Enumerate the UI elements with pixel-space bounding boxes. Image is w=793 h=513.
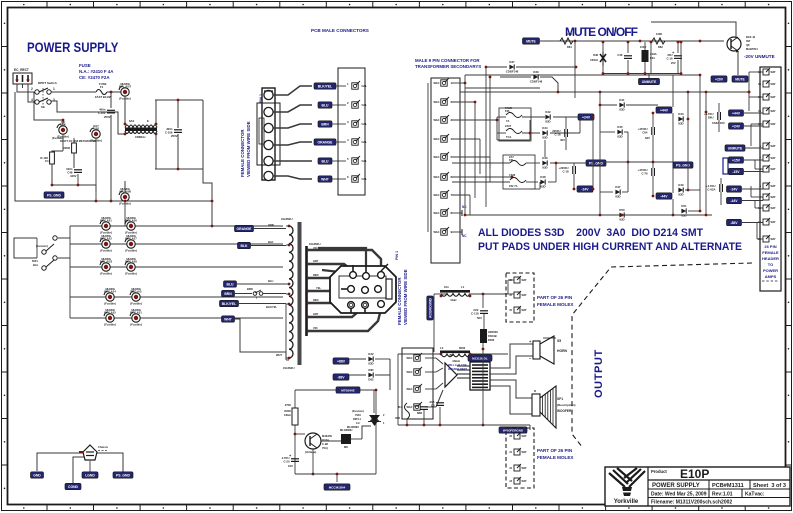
wire dashed bracket [572,263,752,448]
pin header 6 [760,142,777,149]
svg-text:BLK A31: BLK A31 [130,310,142,314]
breaker 7A row3 [509,155,526,166]
pin secondary 1 [433,78,452,86]
fusible link row4b [130,287,142,306]
svg-text:(Fusible): (Fusible) [125,271,137,275]
transformer T1 secondary [307,242,321,336]
pin male 5 [352,156,360,164]
diode D38 zener [590,52,606,66]
wire diode outs [553,116,593,118]
svg-text:OAL: OAL [362,177,368,181]
svg-text:(Fusible): (Fusible) [130,301,142,305]
svg-text:SB: SB [41,105,45,109]
svg-text:70A): 70A) [322,446,328,450]
svg-text:M1311MOL: M1311MOL [472,356,488,360]
diode D44 matrix [542,126,548,139]
svg-text:Q8: Q8 [746,43,750,47]
svg-text:2A07: 2A07 [505,124,512,128]
node BRN mid [222,290,235,296]
wire rows to transformer [253,228,286,230]
svg-text:WAT: WAT [771,71,777,74]
svg-text:CDBF148: CDBF148 [530,80,543,84]
svg-text:26 PIN: 26 PIN [764,244,776,249]
node ORANGE pin4 [314,139,336,145]
svg-text:Rev:1.01: Rev:1.01 [712,492,733,498]
wire header links [744,112,763,114]
fusible link F2 [119,82,132,101]
box breaker group1 [499,108,531,141]
wire neutral drop [110,92,112,108]
svg-text:DIP4.1: DIP4.1 [353,417,361,421]
svg-text:OAL: OAL [362,84,368,88]
svg-text:-44V: -44V [730,199,738,203]
node WHT mid [222,316,235,322]
diode D37 CDBF148 [506,60,519,73]
svg-text:C3: C3 [431,403,435,407]
wire matrix h2 [452,101,475,103]
resistor HFR008 [480,329,487,343]
svg-text:R: R [534,389,536,393]
pin male 3 [352,119,360,127]
svg-text:BLK A21: BLK A21 [100,218,112,222]
wire bottom rail y215 [465,214,712,216]
svg-text:R81: R81 [567,45,572,49]
capacitor C-102 [98,108,115,115]
pin header 8 [760,165,777,172]
pin molex top 3 [509,306,527,313]
svg-text:(Description): (Description) [557,403,576,407]
svg-text:C46: C46 [617,53,623,57]
fusible link row3b [125,257,137,276]
svg-text:(Fusible): (Fusible) [104,322,116,326]
connector output pins box [402,348,433,419]
svg-text:R/CKT OC H68 METGROUND: R/CKT OC H68 METGROUND [60,139,96,143]
breaker 7A row2 [505,124,522,139]
fusible link row2a [100,234,112,253]
wire x712 vertical [705,92,707,215]
svg-text:(Fusible): (Fusible) [125,248,137,252]
wire secondary row 5 [70,317,283,319]
svg-text:MCCM12N4: MCCM12N4 [329,485,346,489]
svg-text:D39: D39 [533,70,539,74]
node UNMUTE header [725,145,745,151]
svg-text:Rs: Rs [398,405,402,409]
wire BRN to pin3 [332,123,346,125]
svg-text:C-76: C-76 [641,171,648,175]
svg-text:Cd: Cd [356,421,360,425]
wire J1 fanout [273,86,312,95]
svg-text:TRANSFORMER SECONDARYS: TRANSFORMER SECONDARYS [415,64,481,69]
svg-text:BCE J3: BCE J3 [746,35,756,39]
svg-text:POWER: POWER [763,268,778,273]
power GND [31,472,44,478]
svg-text:BLU: BLU [322,159,330,163]
breaker 7A row4 [509,173,526,188]
svg-text:CE: #2470 F2A: CE: #2470 F2A [79,75,110,80]
svg-text:ORANGE: ORANGE [237,227,253,231]
svg-text:40V: 40V [560,138,565,142]
power PS_GND left [44,192,64,198]
svg-text:TO: TO [768,262,773,267]
svg-text:83D: 83D [540,185,545,189]
capacitor C2u2 low [413,404,428,409]
fusible link row1a [100,216,112,235]
wire bottom rail PS [15,92,212,201]
svg-text:WAC: WAC [406,405,412,409]
svg-text:PS_GND: PS_GND [116,473,130,477]
svg-text:Yorkville: Yorkville [614,499,639,505]
pin secondary 9 [433,227,452,235]
wire fusible to filter [124,96,126,123]
pin header 12 [758,68,776,75]
node -88V header [727,219,742,225]
wire Q8 collector [651,22,736,37]
diode D45 [617,125,623,138]
svg-text:(Voltage): (Voltage) [305,450,316,454]
resistor R82 mute [652,32,665,49]
svg-text:FEMALE: FEMALE [762,250,779,255]
wire matrix h4 [452,138,480,140]
ground tie diamond [83,445,109,460]
svg-text:6001: 6001 [32,259,38,263]
power PS_GND bottom [113,472,133,478]
pin output 3 [406,384,422,392]
svg-text:D6U: D6U [708,115,714,119]
svg-text:-88V: -88V [337,375,345,379]
node WOOFERGND [499,427,527,433]
wire switch lower run [51,101,125,134]
svg-text:83D: 83D [681,214,686,218]
pin output 1 [406,353,422,361]
svg-text:+20V: +20V [715,77,724,81]
node BLU mid [224,281,237,287]
svg-text:83D: 83D [615,195,620,199]
svg-text:PS_GND: PS_GND [47,193,61,197]
capacitor C-18 2200u [559,166,576,174]
node BLK/YEL mid [220,300,239,306]
svg-text:F1: F1 [100,85,104,89]
svg-text:10n: 10n [444,285,449,289]
svg-text:+24V: +24V [582,115,591,119]
node MCC GND [324,484,350,490]
svg-text:DPDT Switch: DPDT Switch [38,81,57,85]
node +24V header [729,123,744,129]
svg-text:L1: L1 [461,285,465,289]
wire secondary row 2 [70,243,283,245]
svg-text:-20V UNMUTE: -20V UNMUTE [744,54,775,59]
svg-text:BLU: BLU [268,279,273,283]
wire matrix h1 [452,82,465,84]
capacitor C64 4700u [638,127,655,135]
capacitor C63A [704,112,720,120]
pin molex bottom 4 [509,477,527,484]
transformer T1 primary [281,217,302,370]
svg-text:VIO: VIO [313,326,317,330]
pin molex bottom 1 [509,432,527,439]
svg-text:BLK A24: BLK A24 [104,289,116,293]
svg-text:WAT: WAT [522,309,528,312]
svg-text:+44V: +44V [732,111,741,115]
resistor R-blue [723,158,728,174]
pin output 4 [406,402,422,410]
relay JW [445,353,470,387]
svg-text:BLK/YEL: BLK/YEL [222,302,237,306]
resistor R81 mute [560,32,573,49]
svg-text:OAL: OAL [362,159,368,163]
svg-text:PART OF 26 PIN: PART OF 26 PIN [537,295,573,300]
svg-text:WAC: WAC [433,100,439,104]
svg-text:VIO: VIO [313,246,317,250]
wire matrix h7 [452,194,470,196]
inductor L1 output [440,285,472,302]
svg-text:MUTE: MUTE [735,77,745,81]
svg-text:TCA: TCA [506,135,511,139]
svg-text:C64: C64 [642,130,648,134]
svg-text:WOOFER: WOOFER [557,409,572,413]
svg-text:BLU: BLU [322,103,330,107]
svg-text:S5: S5 [557,339,561,343]
svg-text:WAC: WAC [406,370,412,374]
svg-text:BLK/YEL: BLK/YEL [318,84,333,88]
wire rail y92 [460,91,749,93]
fusible link row4a [104,287,116,306]
svg-text:WAC: WAC [433,118,439,122]
svg-text:MALE 9 PIN CONNECTOR FOR: MALE 9 PIN CONNECTOR FOR [415,58,480,63]
svg-text:C-20: C-20 [283,459,290,463]
svg-text:83D: 83D [368,362,373,366]
node BLK/YEL pin1 [314,83,336,89]
svg-text:OAL: OAL [362,103,368,107]
svg-text:83D: 83D [617,135,622,139]
capacitor C63B [706,184,722,192]
capacitor C48A mute [642,50,649,62]
pin secondary 5 [433,152,452,160]
svg-text:BLU: BLU [227,282,235,286]
svg-text:FKN1B: FKN1B [488,334,497,338]
diode D42 matrix [545,110,551,123]
svg-text:6062: 6062 [459,346,466,350]
switch thermal breaker [253,290,263,300]
wire primary joins [286,225,289,227]
svg-text:15.0: 15.0 [45,159,51,163]
pin output 2 [406,367,422,375]
svg-text:ORANGE PART: ORANGE PART [448,367,467,371]
pin molex bottom 2 [509,448,527,455]
title block frame [605,467,790,506]
wire BLU to pin2 [332,104,346,106]
svg-text:WAT: WAT [522,294,528,297]
node +15V header [729,157,744,163]
wire right drop to lower rows [203,169,212,226]
svg-text:(Funcion): (Funcion) [36,244,48,248]
node -44V left [656,193,672,199]
svg-text:16V: 16V [288,464,293,468]
node ORANGE [235,225,254,231]
svg-text:CH362U: CH362U [281,217,293,221]
pin header 4 [760,193,777,200]
svg-text:-24V: -24V [581,187,589,191]
node -15V header [729,168,744,174]
svg-text:Date: Wed Mar 25, 2009: Date: Wed Mar 25, 2009 [651,492,707,498]
svg-text:-24V: -24V [730,187,738,191]
svg-text:NC: NC [462,234,467,238]
node BRN pin3 [318,121,332,127]
svg-text:D45: D45 [617,125,623,129]
svg-text:WAT: WAT [522,279,528,282]
wire matrix h6 [452,176,512,178]
node BLU pin2 [318,102,332,108]
svg-text:WAT: WAT [771,157,777,160]
diode D41 [619,98,625,111]
svg-text:C63A 16V: C63A 16V [712,121,725,125]
fusible link F3 [119,187,131,206]
fusible link row3a [100,257,113,276]
node -24V [577,186,593,192]
power CGND [65,483,81,489]
svg-text:BLK A25: BLK A25 [104,310,116,314]
svg-text:D44: D44 [542,126,548,130]
diode D49 right [678,183,684,196]
connector J1 female header [257,88,280,181]
pin header 23 [758,93,776,100]
wire nc stubs [452,212,462,214]
svg-text:WAC: WAC [433,137,439,141]
pin header 7 [760,154,777,161]
svg-text:A/03: A/03 [93,126,99,130]
wire PS_GND stub [95,192,97,201]
svg-text:CH362U: CH362U [283,366,295,370]
pin header 26 [758,235,776,242]
svg-text:83D: 83D [368,368,373,372]
svg-text:D62: D62 [368,378,374,382]
svg-text:440V: 440V [70,174,77,178]
svg-text:D37: D37 [509,60,515,64]
svg-text:WAT: WAT [771,207,777,210]
pin header 16 [758,120,776,127]
svg-text:POWER SUPPLY: POWER SUPPLY [652,483,700,489]
svg-text:D42: D42 [368,352,374,356]
connector molex dashed bottom [506,428,534,488]
svg-text:WAT: WAT [771,168,777,171]
svg-text:OAL: OAL [362,122,368,126]
wire unmute row [465,87,540,89]
svg-text:UNMUTE: UNMUTE [728,146,743,150]
title POWER SUPPLY [27,39,119,55]
svg-text:MK: MK [344,445,348,449]
diode D62 [368,368,374,381]
transistor Q8 [727,35,758,53]
label FEMALE CONNECTOR top [240,121,251,177]
svg-text:OAL: OAL [362,140,368,144]
svg-text:4: 4 [31,98,33,102]
node PS_GND right [673,162,693,168]
svg-text:WILL A 47 COIL: WILL A 47 COIL [448,363,468,367]
transistor Q6 fusible [57,120,69,139]
pin secondary 2 [433,97,452,105]
svg-text:OUTPUT: OUTPUT [593,349,605,398]
node -44V header [727,197,742,203]
svg-text:397: 397 [746,39,751,43]
diode D47 mid [615,185,621,198]
node block label [468,355,492,361]
svg-text:BLK A28: BLK A28 [125,259,137,263]
svg-text:R82: R82 [658,45,663,49]
connector 9pin box [431,78,460,263]
pin male 4 [352,137,360,145]
pin secondary 6 [433,172,452,180]
svg-text:C-98: C-98 [322,442,328,446]
speaker SP1 woofer [532,386,576,428]
inductor L2 output [440,346,472,363]
svg-text:BAL A/07: BAL A/07 [119,84,132,88]
connector molex dashed top [506,273,534,322]
wire secondary row 1 [70,225,283,227]
svg-text:FEMALE MOLEX: FEMALE MOLEX [537,455,574,460]
wire left subcircuit [34,92,63,126]
node BLU pin5 [318,158,332,164]
box breaker group2 [503,155,535,189]
svg-text:BLK/YEL: BLK/YEL [266,305,278,309]
node MUTE right [732,76,748,82]
pin male 1 [352,81,360,89]
svg-text:LGND: LGND [85,473,95,477]
svg-text:D51: D51 [681,204,687,208]
svg-text:C2km: C2km [284,413,292,417]
wire matrix h5 [452,156,490,158]
wire ground cluster [37,453,84,471]
node UNMUTE matrix [639,78,660,84]
svg-text:PART OF 26 PIN: PART OF 26 PIN [537,448,573,453]
svg-text:83D: 83D [619,108,624,112]
pin male 2 [352,100,360,108]
svg-text:BLK: BLK [241,244,249,248]
svg-text:KaTvac:: KaTvac: [745,492,765,498]
capacitor C46 mute [617,53,632,58]
svg-text:CGND: CGND [68,485,79,489]
svg-text:PIN 1: PIN 1 [395,251,399,260]
svg-text:MJE450: MJE450 [322,434,333,438]
svg-text:MUTE: MUTE [526,39,536,43]
svg-text:D41: D41 [619,98,625,102]
wire BLU to pin5 [332,160,346,162]
svg-text:Product: Product [651,469,667,474]
switch SW1 DPDT [31,81,57,109]
fuse F1 [95,82,112,99]
svg-text:BRN: BRN [247,287,253,291]
svg-text:WAC: WAC [433,175,439,179]
choke CM filter [124,119,158,139]
svg-text:CD110: CD110 [590,58,598,62]
wire mute gnd rail [603,73,681,75]
svg-text:D38: D38 [593,53,598,57]
svg-text:PCB MALE CONNECTORS: PCB MALE CONNECTORS [311,28,369,33]
pin header 5 [760,182,777,189]
capacitor C-106 [165,127,182,134]
svg-text:UNMUTE: UNMUTE [642,80,657,84]
svg-text:WAT: WAT [522,480,528,483]
svg-text:ACGROUND: ACGROUND [428,297,432,318]
svg-text:-44V: -44V [660,194,668,198]
wire x688 vertical [687,92,689,190]
svg-text:(Funcion): (Funcion) [352,409,364,413]
svg-text:RED A/3: RED A/3 [131,289,142,293]
svg-text:BLK A26: BLK A26 [125,218,137,222]
svg-text:+88V: +88V [337,359,346,363]
connector PCB male pins box [338,68,365,195]
svg-text:C-16: C-16 [554,132,561,136]
svg-text:WAT: WAT [771,145,777,148]
capacitor C-16 2200u [552,129,567,137]
